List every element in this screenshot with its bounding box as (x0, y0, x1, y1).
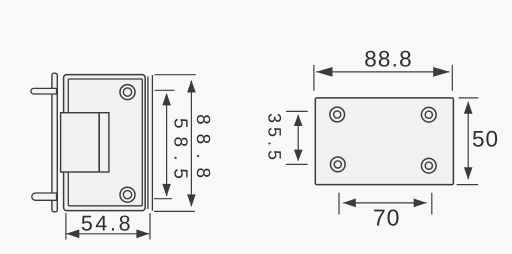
dimension 50 arrow down (464, 167, 473, 180)
dimension 70 extension line right (431, 193, 433, 215)
dimension 54.8 arrow left (66, 229, 79, 238)
screw hole bottom (side view) (120, 187, 135, 202)
dimension 58.5 line (166, 94, 168, 196)
bottom gasket tab (32, 193, 57, 200)
dimension 88.8 (left view) arrow up (187, 80, 196, 93)
dimension 88.8 (top view) arrow right (433, 67, 450, 77)
dimension 35.5 line (297, 115, 299, 161)
dimension 58.5 arrow up (162, 93, 171, 106)
dimension 88.8 (left view) line (190, 81, 192, 206)
screw hole bottom-left (top view) (330, 157, 345, 172)
dimension 50 extension tick top (459, 97, 479, 99)
dimension 54.8 line (67, 233, 150, 235)
svg-text:88.8: 88.8 (192, 114, 213, 187)
dimension 50 arrow up (464, 101, 473, 114)
clamp block inner line (98, 113, 100, 172)
svg-text:54.8: 54.8 (81, 211, 133, 235)
dimension 35.5 arrow down (294, 150, 303, 162)
screw hole top (side view) (120, 85, 135, 100)
dimension 54.8 extension line right (149, 213, 151, 240)
dimension 88.8 (left view) extension line bottom (154, 210, 195, 212)
dimension 88.8 (top view) extension line right (451, 65, 453, 91)
screw hole top-right (top view) (421, 107, 436, 122)
dimension 58.5 extension tick top (155, 89, 175, 91)
plate inner face line (68, 79, 142, 206)
clamp block (61, 113, 109, 172)
screw hole top-left (top view) (330, 107, 345, 122)
top gasket tab (31, 88, 57, 94)
dimension 70 arrow left (343, 199, 356, 208)
dimension 35.5 extension tick top (286, 110, 308, 112)
dimension 58.5 arrow down (162, 184, 171, 197)
wall plate outline (side view) (64, 75, 146, 211)
plate bevel edge line 1 (147, 77, 149, 210)
dimension 88.8 (top view) line (316, 71, 449, 73)
svg-text:35.5: 35.5 (265, 113, 285, 164)
dimension 88.8 (top view) extension line left (313, 65, 315, 91)
dimension 88.8 (left view) extension line top (155, 74, 196, 76)
screw hole bottom-right (top view) (421, 158, 436, 173)
dimension 70 arrow right (414, 199, 427, 208)
dimension 58.5 extension tick bottom (154, 198, 172, 200)
svg-text:50: 50 (472, 127, 499, 152)
dimension 88.8 (left view) arrow down (187, 194, 196, 207)
dimension 35.5 arrow up (294, 114, 303, 126)
dimension 70 extension line left (338, 193, 340, 215)
hinge knuckle bar (side view) (52, 73, 57, 212)
dimension 88.8 (top view) arrow left (316, 67, 333, 77)
dimension 35.5 extension tick bottom (286, 163, 308, 165)
svg-text:58.5: 58.5 (170, 118, 191, 187)
dimension 70 line (343, 202, 426, 204)
dimension 50 extension tick bottom (457, 184, 479, 186)
svg-text:70: 70 (373, 205, 401, 231)
dimension 50 line (467, 102, 469, 179)
dimension 54.8 arrow right (136, 229, 149, 238)
mounting plate rectangle (top view) (315, 98, 453, 185)
plate bevel edge line 2 (151, 75, 153, 211)
svg-text:88.8: 88.8 (364, 47, 413, 72)
dimension 54.8 extension line left (65, 213, 67, 240)
